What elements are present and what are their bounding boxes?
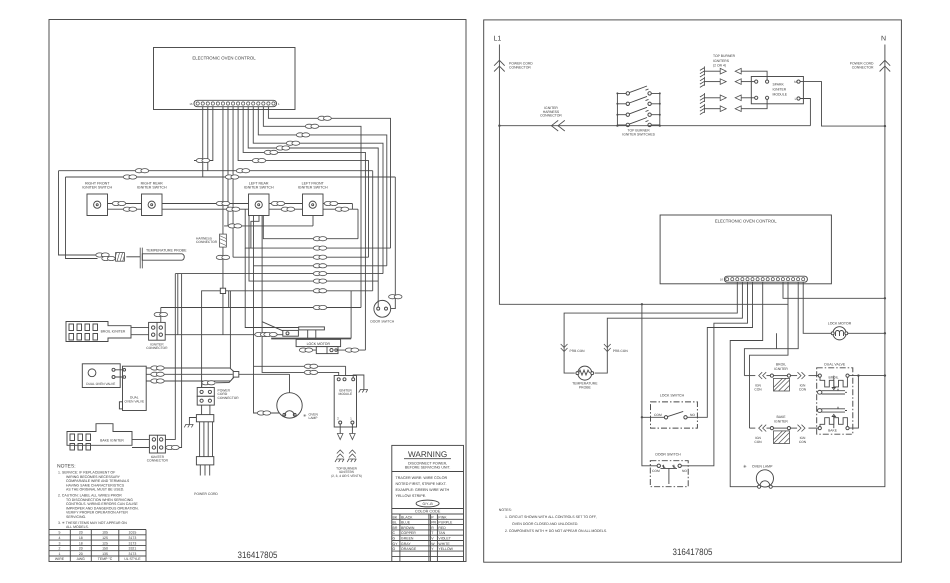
motor aux connector ovals <box>255 332 268 336</box>
svg-text:ORANGE: ORANGE <box>401 547 417 551</box>
svg-text:DOOR SWITCH: DOOR SWITCH <box>655 453 681 457</box>
wire: pin10 row5 <box>248 107 378 307</box>
svg-text:IGNITER SWITCHES: IGNITER SWITCHES <box>622 133 655 137</box>
svg-text:IGNITER: IGNITER <box>773 88 787 92</box>
wire: EOC to lock switch NO <box>687 282 752 417</box>
svg-text:1015: 1015 <box>129 531 137 535</box>
wire: node1 to power cord connector <box>202 291 221 388</box>
wire: dual valve to N rail <box>849 375 885 377</box>
svg-text:RED: RED <box>438 526 446 530</box>
wire: EOC to lock motor <box>803 282 831 333</box>
top burner igniter row 3 <box>700 93 758 104</box>
connector oval on broil riser <box>154 312 167 316</box>
svg-text:2: 2 <box>59 547 61 551</box>
svg-text:SPARK: SPARK <box>773 83 785 87</box>
wire: pin9 row6 <box>243 107 365 350</box>
svg-text:TRACER WIRE: WIRE COLOR: TRACER WIRE: WIRE COLOR <box>396 476 448 480</box>
svg-text:5: 5 <box>59 531 61 535</box>
svg-text:150: 150 <box>102 547 108 551</box>
igniter module output leads to top burner igniters <box>331 424 362 478</box>
svg-text:IGNITER: IGNITER <box>774 367 788 371</box>
wire: broil connector top riser to row K <box>160 308 162 327</box>
svg-text:L: L <box>795 97 797 101</box>
broil igniter HTR1 <box>66 322 149 342</box>
svg-text:LAMP: LAMP <box>309 416 319 420</box>
svg-text:(2 OR 4): (2 OR 4) <box>713 64 726 68</box>
wire: pin6 down to jumper row <box>224 107 313 226</box>
svg-text:316417805: 316417805 <box>238 550 278 560</box>
lock motor lead ovals <box>299 348 312 352</box>
wire: lock switch COM feed <box>642 416 664 418</box>
svg-text:2. COMPONENTS WITH ✳ DO NO: 2. COMPONENTS WITH ✳ DO NOT APPEAR ON AL… <box>505 529 607 533</box>
NOTES (right page) <box>499 508 607 533</box>
svg-text:3173: 3173 <box>129 541 137 545</box>
svg-text:AWG: AWG <box>77 557 86 561</box>
wire: lock motor right lead <box>338 349 365 351</box>
svg-text:CONNECTOR: CONNECTOR <box>147 459 169 463</box>
svg-text:GREEN: GREEN <box>401 537 414 541</box>
power cord ground <box>189 418 196 425</box>
svg-text:316417805: 316417805 <box>673 547 713 557</box>
svg-text:BROWN: BROWN <box>401 526 415 530</box>
wire: spark module N to neutral rail <box>800 82 885 127</box>
wire: pin5 down through harness connector to node1 <box>222 107 224 289</box>
igniter switch right front S1 <box>82 182 112 216</box>
lock motor track bar <box>271 338 351 340</box>
probe connector right <box>604 344 611 352</box>
temperature probe (right page) <box>572 366 598 389</box>
svg-text:18: 18 <box>79 541 83 545</box>
svg-text:IGNITER SWITCH: IGNITER SWITCH <box>82 186 112 190</box>
wire: tbar feed <box>245 248 299 327</box>
svg-text:CONNECTOR: CONNECTOR <box>852 65 874 69</box>
top burner igniter row 4 <box>700 96 769 114</box>
power cord connector blocks <box>197 388 239 406</box>
temperature probe body <box>126 248 184 269</box>
svg-text:SERVICING.: SERVICING. <box>66 515 86 519</box>
motor aux connector box <box>283 330 299 336</box>
svg-text:IGNITER SWITCH: IGNITER SWITCH <box>298 186 328 190</box>
wire: node2 riser <box>230 291 233 372</box>
svg-text:LOCK MOTOR: LOCK MOTOR <box>828 322 852 326</box>
top burner igniter row 2 <box>700 77 758 88</box>
terminal strip of electronic oven control (left page) <box>189 100 280 106</box>
svg-text:18: 18 <box>79 536 83 540</box>
svg-text:AS THE ORIGINAL MUST BE USED.: AS THE ORIGINAL MUST BE USED. <box>66 488 124 492</box>
svg-text:1: 1 <box>59 552 61 556</box>
lock motor actuator bar <box>299 327 325 339</box>
svg-text:NOTES:: NOTES: <box>499 508 512 512</box>
svg-text:GY: GY <box>393 542 399 546</box>
svg-text:✳: ✳ <box>303 413 307 418</box>
svg-text:POWER CORD: POWER CORD <box>194 492 218 496</box>
wire: pin8 row7 <box>238 107 368 258</box>
electronic oven control U2 (right page) <box>660 215 831 284</box>
wire: vertical to module row <box>262 209 339 377</box>
igniter connector (bake) <box>147 435 169 463</box>
wire: EOC to broil igniter feed <box>744 282 798 375</box>
igniter switch left rear S3 <box>244 182 274 216</box>
svg-text:IGNITER SWITCH: IGNITER SWITCH <box>137 186 167 190</box>
igniter module ground <box>353 375 364 390</box>
node2 junction <box>233 372 239 378</box>
wire: LR switch bottom loop <box>251 216 259 249</box>
svg-text:ELECTRONIC OVEN CONTROL: ELECTRONIC OVEN CONTROL <box>192 56 256 61</box>
bottom row C <box>233 256 368 258</box>
connector ovals at valve node <box>151 366 164 370</box>
svg-text:MODULE: MODULE <box>338 392 352 396</box>
wire: pin12 row3 <box>258 107 387 266</box>
wire: stub row G to actuator bar <box>350 291 352 339</box>
igniter harness connector <box>551 120 564 131</box>
svg-text:CON: CON <box>799 387 807 391</box>
svg-text:CON: CON <box>799 440 807 444</box>
svg-text:CONNECTOR: CONNECTOR <box>509 65 531 69</box>
bottom row F <box>249 209 378 281</box>
connector oval on row K <box>313 305 326 309</box>
power cord plug and leads <box>194 405 218 496</box>
svg-text:CON: CON <box>754 440 762 444</box>
wire: branch from motor row to igniter feed row <box>776 333 778 348</box>
svg-text:PRB CON: PRB CON <box>613 349 629 353</box>
wire: node1 stem down to broil aux row <box>222 294 224 335</box>
connector ovals on switch bus <box>112 201 125 205</box>
svg-text:20: 20 <box>79 531 83 535</box>
power cord connector (N) <box>880 60 891 71</box>
svg-text:125: 125 <box>102 536 108 540</box>
svg-text:1. CIRCUIT SHOWN WITH ALL CO: 1. CIRCUIT SHOWN WITH ALL CONTROLS SET T… <box>505 515 597 519</box>
svg-text:BLUE: BLUE <box>401 521 411 525</box>
bottom row E <box>175 273 383 275</box>
wire: N rail down to lamp <box>773 45 885 487</box>
probe connector left <box>561 344 568 352</box>
svg-text:COPPER: COPPER <box>401 531 416 535</box>
spark igniter module <box>751 77 803 104</box>
connector ovals on top-right rows <box>318 116 331 120</box>
wire: EOC to temperature probe right <box>595 282 743 373</box>
bottom row G <box>226 290 373 292</box>
svg-text:BLACK: BLACK <box>401 515 413 519</box>
bottom row A <box>263 209 358 239</box>
svg-text:CONNECTOR: CONNECTOR <box>540 114 562 118</box>
svg-text:DOOR SWITCH: DOOR SWITCH <box>370 320 394 324</box>
broil igniter row (right page) <box>744 363 818 392</box>
dual oven valve (main) <box>82 364 122 388</box>
wire: pin3 stub row <box>194 107 213 161</box>
wire: pin1 to left rail and right loop <box>66 107 396 309</box>
wire: pin7 down <box>232 107 234 258</box>
wire: lock motor to N rail <box>848 332 885 334</box>
wire: node2 to oven lamp <box>239 374 290 392</box>
color code table <box>392 514 464 562</box>
igniter switch left front S4 <box>298 182 328 216</box>
svg-text:EXAMPLE: GREEN WIRE WITH: EXAMPLE: GREEN WIRE WITH <box>396 488 450 492</box>
svg-text:PRB CON: PRB CON <box>570 349 586 353</box>
svg-text:TOP BURNER: TOP BURNER <box>713 54 736 58</box>
svg-text:WIRE: WIRE <box>55 557 65 561</box>
oven lamp (right page) <box>743 464 774 488</box>
svg-text:O: O <box>393 547 396 551</box>
svg-text:4: 4 <box>59 536 61 540</box>
connector ovals on bottom rows <box>313 237 326 241</box>
connector oval below harness connector <box>216 255 229 259</box>
svg-text:GRAY: GRAY <box>401 542 411 546</box>
svg-text:COLOR CODE: COLOR CODE <box>415 510 441 514</box>
svg-text:ELECTRONIC OVEN CONTROL: ELECTRONIC OVEN CONTROL <box>715 219 777 224</box>
svg-text:PURPLE: PURPLE <box>438 521 453 525</box>
wire gauge table <box>49 530 146 562</box>
bottom row B <box>245 209 390 248</box>
notes item 1 <box>58 471 130 492</box>
wire: lock motor left lead <box>300 349 316 351</box>
svg-text:VIOLET: VIOLET <box>438 537 451 541</box>
svg-text:NO: NO <box>690 413 695 417</box>
module feed ovals <box>304 364 317 368</box>
igniter switch bus wires <box>87 204 358 239</box>
svg-text:YELLOW: YELLOW <box>438 547 453 551</box>
svg-text:✳: ✳ <box>743 464 747 469</box>
wire: pin11 row4 <box>253 107 383 274</box>
igniter module (left page) <box>334 376 356 428</box>
notes item 2 <box>58 494 139 520</box>
node1 junction <box>220 288 225 293</box>
svg-text:CON: CON <box>754 387 762 391</box>
svg-text:PINK: PINK <box>438 515 447 519</box>
row K broil riser run <box>161 291 361 308</box>
wire: EOC to door switch NO <box>682 282 748 466</box>
wire: vertical to valve node <box>254 266 346 413</box>
svg-text:MODULE: MODULE <box>773 93 788 97</box>
wire: diagonal into aux box <box>262 322 283 331</box>
svg-text:L1: L1 <box>494 36 502 43</box>
svg-text:TAN: TAN <box>438 531 445 535</box>
svg-text:OVEN LAMP: OVEN LAMP <box>752 464 773 468</box>
power cord connector oval <box>202 381 215 385</box>
oven lamp (left page) <box>277 393 319 421</box>
svg-text:NO: NO <box>682 469 687 473</box>
wire: row E drop to aux row <box>177 274 179 335</box>
svg-text:BK: BK <box>393 515 398 519</box>
svg-text:BEFORE SERVICING UNIT.: BEFORE SERVICING UNIT. <box>405 466 451 470</box>
svg-text:CONNECTOR: CONNECTOR <box>196 240 218 244</box>
bake igniter HTR2 <box>67 424 149 450</box>
electronic oven control U1 (left page) <box>154 48 296 110</box>
svg-text:IGNITER: IGNITER <box>774 419 788 423</box>
svg-text:20: 20 <box>79 547 83 551</box>
junction on L1 rail <box>498 125 500 127</box>
bake igniter row (right page) <box>750 415 819 444</box>
wire: L1 bus <box>499 125 810 127</box>
svg-text:YELLOW STRIPE.: YELLOW STRIPE. <box>396 494 427 498</box>
svg-text:DUAL OVEN VALVE: DUAL OVEN VALVE <box>86 382 115 386</box>
wire: L1 rail and run to dual valve <box>499 45 788 429</box>
wire: EOC to oven lamp <box>730 282 763 487</box>
svg-text:135: 135 <box>102 552 108 556</box>
svg-text:TEMPERATURE PROBE: TEMPERATURE PROBE <box>146 249 187 253</box>
door switch (right page) <box>650 453 688 487</box>
svg-text:UL STYLE: UL STYLE <box>124 557 141 561</box>
svg-text:IGNITER SWITCH: IGNITER SWITCH <box>244 186 274 190</box>
svg-text:COM: COM <box>652 469 660 473</box>
svg-text:ALL MODELS.: ALL MODELS. <box>66 525 89 529</box>
wire: pin14 row1 <box>268 107 390 248</box>
svg-text:16: 16 <box>720 278 724 282</box>
svg-text:BL: BL <box>393 521 397 525</box>
svg-text:CONNECTOR: CONNECTOR <box>146 346 168 350</box>
svg-text:BAKE IGNITER: BAKE IGNITER <box>100 439 124 443</box>
svg-text:125: 125 <box>102 541 108 545</box>
svg-text:3173: 3173 <box>129 552 137 556</box>
svg-text:3321: 3321 <box>129 547 137 551</box>
door switch (left page) <box>370 300 394 323</box>
svg-text:16: 16 <box>189 102 193 106</box>
notes item 3 <box>58 521 127 529</box>
svg-text:WARNING: WARNING <box>408 450 447 459</box>
svg-text:BAKE: BAKE <box>828 429 838 433</box>
lock motor (right page) <box>828 322 852 340</box>
top burner igniter row 1 <box>700 66 769 83</box>
svg-text:PROBE: PROBE <box>579 386 592 390</box>
left page border frame <box>49 20 466 562</box>
svg-text:20: 20 <box>79 552 83 556</box>
wire: valve bake return <box>849 376 858 429</box>
svg-text:G: G <box>393 537 396 541</box>
connector ovals on top-left rows <box>135 169 148 173</box>
svg-text:(2, 3, 4 OR 5 VENTS): (2, 3, 4 OR 5 VENTS) <box>331 474 362 478</box>
wire: L1 branch to switch commons <box>642 304 657 466</box>
svg-text:N: N <box>881 36 886 43</box>
wire: spark module L to L1 bus <box>800 99 810 126</box>
svg-text:WHITE: WHITE <box>438 542 450 546</box>
warning box <box>392 445 464 561</box>
top burner igniter switches block <box>616 86 661 137</box>
igniter connector (broil) <box>146 322 168 350</box>
wire: valve rows to node2 <box>146 368 233 381</box>
power cord connector (L1) <box>494 60 505 71</box>
dual oven valve (secondary) <box>119 366 146 410</box>
svg-text:DUAL VALVE: DUAL VALVE <box>824 363 846 367</box>
svg-text:OVEN VALVE: OVEN VALVE <box>124 399 144 403</box>
dual valve (right page) <box>817 363 853 434</box>
bottom row D <box>254 216 387 266</box>
svg-text:COM: COM <box>654 413 662 417</box>
lock switch <box>651 394 698 429</box>
svg-text:BR: BR <box>393 526 398 530</box>
svg-text:3173: 3173 <box>129 536 137 540</box>
oven lamp lead oval <box>257 411 270 415</box>
svg-text:LOCK SWITCH: LOCK SWITCH <box>660 394 685 398</box>
svg-text:CONNECTOR: CONNECTOR <box>218 396 240 400</box>
svg-text:OVEN DOOR CLOSED AND UNLOCKED.: OVEN DOOR CLOSED AND UNLOCKED. <box>512 522 578 526</box>
wire: EOC L1 input pin <box>787 282 789 304</box>
svg-text:LOCK MOTOR: LOCK MOTOR <box>307 342 331 346</box>
wire: bake connector risers <box>165 274 181 448</box>
svg-text:NOTES:: NOTES: <box>57 464 76 470</box>
wire: EOC to temperature probe left <box>564 282 737 373</box>
svg-text:105: 105 <box>102 531 108 535</box>
wire: pin13 row2 <box>263 107 361 308</box>
right page border frame <box>484 20 902 562</box>
wire: EOC neutral to N rail <box>783 282 885 298</box>
wire: node2 to power cord oval <box>202 378 234 388</box>
svg-text:IGNITERS: IGNITERS <box>713 59 730 63</box>
svg-text:G/Y–B: G/Y–B <box>422 502 433 506</box>
lock motor body <box>296 339 341 346</box>
terminal strip of electronic oven control (right page) <box>720 276 808 282</box>
temperature probe plug <box>116 253 125 262</box>
lock motor terminal block <box>316 347 338 354</box>
temperature probe connector ovals <box>96 253 109 257</box>
svg-text:BROIL IGNITER: BROIL IGNITER <box>101 330 126 334</box>
wire: broil lower lead along aux row <box>165 334 283 336</box>
svg-text:3: 3 <box>59 541 61 545</box>
harness connector on pin5 wire <box>220 234 227 247</box>
svg-text:PR: PR <box>431 521 436 525</box>
igniter switch right rear S2 <box>137 182 167 216</box>
wire: pin2 to left rail and right loop <box>59 107 373 291</box>
connector oval on bake wire <box>166 445 179 449</box>
svg-text:TEMP °C: TEMP °C <box>98 557 113 561</box>
svg-text:NOTED FIRST, STRIPE NEXT.: NOTED FIRST, STRIPE NEXT. <box>396 482 447 486</box>
connector oval on jumper row <box>228 224 241 228</box>
